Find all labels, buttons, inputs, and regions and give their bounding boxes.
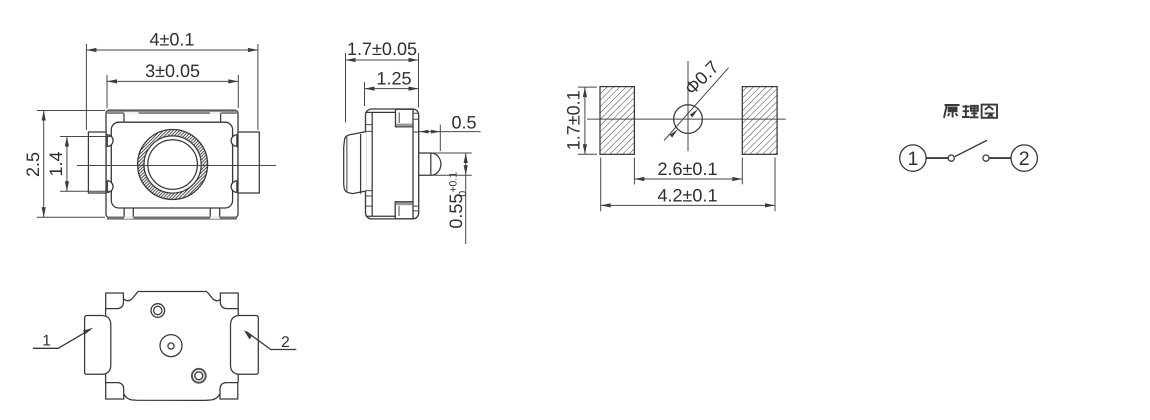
terminal lead side	[419, 153, 431, 175]
dim text 0.55 +0.1/0 rotated	[446, 172, 469, 229]
corner tab top-right	[220, 293, 238, 309]
cover ear notch bottom-left	[107, 181, 113, 193]
title 原理图 (drawn strokes)	[944, 105, 997, 118]
centerline vertical	[687, 61, 689, 151]
char 原	[944, 105, 960, 118]
terminal circle 2	[1011, 145, 1037, 171]
corner tab bottom-right	[220, 383, 238, 399]
svg-text:4.2±0.1: 4.2±0.1	[658, 186, 718, 206]
hole bottom-right (thick ring)	[192, 369, 206, 383]
dim 1.25 line	[365, 88, 419, 90]
corner tab top-left	[106, 293, 124, 309]
svg-text:0.5: 0.5	[451, 113, 476, 133]
hole top (double ring)	[151, 304, 165, 318]
side body outer	[366, 109, 419, 219]
svg-text:1.7±0.1: 1.7±0.1	[563, 90, 583, 150]
contact dot left	[948, 155, 954, 161]
svg-text:1: 1	[42, 333, 51, 350]
terminal extension lines	[433, 152, 472, 154]
svg-text:2: 2	[281, 334, 290, 351]
dim 0.55 line vertical	[465, 153, 467, 244]
body inner rounded rect	[111, 122, 232, 208]
terminal 1 (left)	[85, 316, 111, 375]
switch arm	[955, 140, 987, 156]
svg-text:1: 1	[907, 148, 918, 170]
dim 0.5 vertical extension	[439, 125, 441, 151]
left pad hatched	[600, 87, 634, 155]
svg-text:4±0.1: 4±0.1	[150, 30, 195, 50]
svg-text:Φ0.7: Φ0.7	[681, 57, 723, 99]
dim 4.2±0.1 extension lines	[600, 158, 602, 212]
dim 1.7±0.05 extension lines	[345, 53, 347, 123]
char 图	[982, 105, 997, 118]
right solder pad	[238, 132, 259, 193]
left solder pad	[88, 132, 106, 193]
dim 2.5 line	[43, 111, 45, 218]
dim 3±0.05 extension lines	[106, 75, 108, 108]
dim 1.7±0.1 extension lines	[578, 86, 597, 88]
bottom cover tab lines	[123, 208, 125, 217]
button hatched ring	[60, 127, 283, 203]
contact dot right	[983, 155, 989, 161]
cover ear notch top-left	[107, 135, 113, 147]
wire from 1	[926, 157, 948, 159]
dim 1.4 extension lines	[60, 136, 111, 138]
char 理	[962, 105, 979, 118]
dim 2.5 extension lines	[37, 110, 105, 112]
svg-text:2.6±0.1: 2.6±0.1	[658, 159, 718, 179]
cover bottom band	[107, 217, 237, 220]
cover ear notch top-right	[231, 135, 237, 147]
svg-text:0: 0	[457, 191, 469, 197]
side body inner lines	[366, 112, 413, 216]
dim 1.4 line	[66, 137, 68, 192]
center boss circle	[160, 335, 182, 357]
cover bend ticks left	[366, 125, 372, 207]
right pad hatched	[742, 87, 777, 155]
button inner circle	[148, 140, 198, 190]
top cover tab lines	[123, 114, 125, 123]
center hole circle	[674, 105, 703, 134]
center boss dot	[168, 343, 174, 349]
corner tab bottom-left	[106, 383, 124, 399]
leader line Φ0.7 through circle	[664, 68, 729, 141]
bottom-right cover tab	[395, 202, 413, 219]
svg-text:3±0.05: 3±0.05	[145, 61, 200, 81]
dim 2.6±0.1 line	[634, 178, 742, 180]
dim 3±0.05 line	[107, 80, 238, 82]
schematic: terminal circle 1	[900, 145, 926, 171]
dim 0.5 line with leader	[419, 131, 481, 133]
svg-text:1.4: 1.4	[46, 151, 66, 176]
top-right cover tab	[396, 109, 414, 127]
dim 1.25 extension line	[364, 82, 366, 106]
centerline over circle	[77, 165, 276, 167]
body side edges	[106, 309, 239, 383]
dim 1.7±0.1 line	[584, 87, 586, 154]
body outline top	[123, 292, 221, 301]
svg-text:+0.1: +0.1	[448, 172, 460, 193]
wire to 2	[989, 157, 1011, 159]
svg-text:0.55: 0.55	[446, 194, 466, 229]
cover top band	[107, 111, 237, 114]
centerline horizontal	[587, 118, 786, 120]
dim 4±0.1 line	[86, 49, 258, 51]
dim 2.6±0.1 extension lines	[633, 158, 635, 185]
cover ear notch bottom-right	[231, 181, 237, 193]
svg-text:1.25: 1.25	[376, 69, 411, 89]
button face edge	[360, 134, 362, 194]
leader 2 line	[246, 332, 296, 350]
svg-text:2: 2	[1019, 148, 1030, 170]
svg-text:1.7±0.05: 1.7±0.05	[347, 39, 417, 59]
button side profile	[344, 132, 366, 194]
centerline horizontal	[77, 165, 276, 167]
body outline bottom	[124, 394, 220, 400]
dim 4±0.1 extension lines	[85, 44, 87, 130]
svg-text:2.5: 2.5	[23, 152, 43, 177]
leader 1 line	[33, 329, 91, 348]
terminal 2 (right)	[231, 316, 259, 375]
dim 4.2±0.1 line	[601, 204, 775, 206]
dim 1.7±0.05 line	[346, 59, 419, 61]
dim 1.4 extension lines over pad	[88, 136, 111, 138]
switch body outer rect	[106, 110, 238, 217]
cover bend ticks right	[413, 113, 419, 211]
